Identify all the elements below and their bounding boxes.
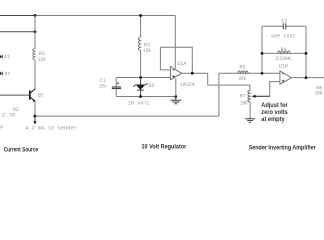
svg-text:see text: see text xyxy=(271,34,296,40)
svg-text:Q1: Q1 xyxy=(38,92,44,98)
node U1B inverting input junction xyxy=(261,72,264,75)
wire vertical sender riser x219 xyxy=(218,73,220,116)
node junction at top rail x140.6 xyxy=(139,14,142,17)
resistor R1 xyxy=(33,49,35,60)
wire U1B non-inverting input route to pot wiper xyxy=(255,82,280,97)
svg-text:10 Volt Regulator: 10 Volt Regulator xyxy=(142,145,187,151)
diode D2 fragment at left edge xyxy=(0,72,3,75)
op-amp U1A xyxy=(170,67,181,80)
wiper arrow of R7 xyxy=(252,95,270,98)
capacitor C1 branch wire upper xyxy=(115,78,117,87)
wire U1A output xyxy=(182,72,208,74)
wire U1A output jog down and right to pot R7 top xyxy=(208,73,250,90)
resistor R5 xyxy=(238,71,249,73)
capacitor C2 xyxy=(283,23,286,29)
svg-text:zero volts: zero volts xyxy=(261,110,288,116)
svg-text:39K: 39K xyxy=(238,76,246,82)
wire vertical R3 to regulator node xyxy=(140,51,142,78)
wire Q1 emitter down to sender rail xyxy=(34,102,36,117)
wire U1B output xyxy=(291,77,324,79)
wire vertical R1 to Q1 collector xyxy=(34,60,36,89)
potentiometer R7 xyxy=(248,90,250,102)
arrow current to sender xyxy=(33,116,36,124)
svg-text:P: P xyxy=(0,125,3,131)
node regulator ground xyxy=(174,95,177,98)
svg-text:R5: R5 xyxy=(239,64,245,70)
wire V+ stem from rail to op-amp U1A xyxy=(174,16,176,69)
wire R5 line from riser to U1B inverting input xyxy=(219,72,280,74)
node U1A output feedback junction xyxy=(191,72,194,75)
svg-text:150: 150 xyxy=(143,48,150,54)
wire top supply rail left segment xyxy=(0,15,35,17)
polarity plus sign of C1 xyxy=(117,82,119,84)
node sender rail junction xyxy=(34,115,37,118)
svg-text:U1A: U1A xyxy=(177,61,186,67)
svg-text:220K: 220K xyxy=(275,56,291,62)
wire U1A inverting input xyxy=(160,69,170,71)
wire top supply rail right segment xyxy=(35,15,175,17)
resistor R3 xyxy=(138,37,140,51)
wire pot bottom to ground xyxy=(249,102,251,119)
ground symbol pot xyxy=(245,119,255,123)
node junction second line x35 xyxy=(34,30,37,33)
node R4 left xyxy=(261,52,264,55)
svg-text:2.7K: 2.7K xyxy=(2,113,16,119)
svg-text:10K: 10K xyxy=(240,100,248,106)
wire C2 left lead xyxy=(262,25,283,27)
wire R4 line xyxy=(262,52,306,54)
zener diode D3 xyxy=(134,78,148,97)
op-amp U1B xyxy=(280,71,292,84)
wire U1A feedback loop xyxy=(160,47,192,73)
svg-text:Sender Inverting Amplifier: Sender Inverting Amplifier xyxy=(249,146,317,152)
svg-text:Adjust for: Adjust for xyxy=(261,103,288,109)
resistor R4 xyxy=(277,51,290,53)
wire second input line from left xyxy=(0,31,35,33)
wire U1A V- stem xyxy=(175,78,177,96)
svg-text:4.2 mA to sender: 4.2 mA to sender xyxy=(25,125,77,131)
svg-text:Current Source: Current Source xyxy=(4,148,39,154)
svg-text:U1B: U1B xyxy=(279,63,288,69)
node junction at top rail x35 xyxy=(34,14,37,17)
capacitor C1 xyxy=(112,87,121,89)
node U1B output junction xyxy=(305,76,308,79)
svg-text:10u: 10u xyxy=(99,84,107,90)
svg-text:D1: D1 xyxy=(5,54,11,60)
wire vertical R1 branch upper xyxy=(34,16,36,49)
wire C2 right lead xyxy=(286,25,306,27)
svg-text:D2: D2 xyxy=(5,71,11,77)
wire vertical R3 branch upper xyxy=(140,16,142,38)
wire feedback left vertical xyxy=(261,26,263,73)
transistor Q1 xyxy=(30,89,36,102)
note Adjust for zero volts at empty xyxy=(261,103,288,123)
wire feedback right vertical xyxy=(305,26,307,77)
wire regulator top rail to U1A non-inverting input xyxy=(116,77,170,79)
svg-text:150: 150 xyxy=(38,57,45,63)
node zener bottom xyxy=(139,95,142,98)
svg-text:C2: C2 xyxy=(281,18,287,24)
ground symbol regulator xyxy=(170,97,181,104)
svg-text:R7: R7 xyxy=(240,94,246,100)
svg-text:LM324: LM324 xyxy=(180,82,194,88)
wire regulator bottom rail xyxy=(116,96,176,98)
svg-text:D3: D3 xyxy=(148,83,154,89)
node R4 right xyxy=(305,52,308,55)
node regulator top at R3 xyxy=(139,76,142,79)
svg-text:R4: R4 xyxy=(281,47,287,53)
diode D1 fragment at left edge xyxy=(0,55,3,58)
capacitor C1 branch wire lower xyxy=(115,89,117,97)
svg-text:10 volt: 10 volt xyxy=(128,101,150,107)
wire Q1 base from left edge xyxy=(0,94,29,96)
svg-text:10K: 10K xyxy=(315,91,323,97)
svg-text:at empty: at empty xyxy=(261,117,285,123)
wire sender bottom rail xyxy=(35,115,219,117)
